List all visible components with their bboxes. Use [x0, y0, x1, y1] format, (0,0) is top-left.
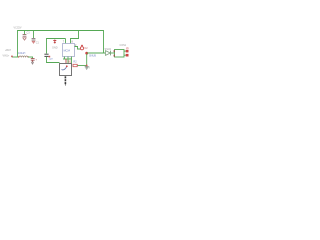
svg-text:R2: R2 [74, 60, 78, 63]
junction node VOUT red dot [85, 52, 88, 55]
IC U1 top pin 8 wire [71, 31, 79, 44]
svg-text:D2: D2 [85, 47, 89, 50]
connector pin pads [126, 50, 129, 53]
svg-text:C1: C1 [36, 42, 40, 45]
dashed lead below box [65, 76, 67, 78]
svg-text:MC34: MC34 [64, 49, 71, 52]
svg-text:J1: J1 [126, 46, 129, 50]
svg-text:SNUB: SNUB [89, 54, 96, 57]
wire x46 to bottom box [47, 57, 60, 63]
svg-text:C3: C3 [27, 32, 31, 35]
wire L1 to node [28, 56, 33, 58]
pins of L1 [18, 56, 19, 57]
svg-text:+BAT: +BAT [5, 49, 11, 52]
red port tick [11, 56, 13, 58]
svg-text:SS34: SS34 [105, 47, 112, 51]
buzzer symbol inside [62, 67, 67, 70]
op-amp U1 box [63, 44, 75, 57]
svg-text:100uH: 100uH [18, 52, 26, 55]
buzzer BZ1 box [60, 64, 72, 76]
svg-text:g: g [89, 66, 91, 69]
inductor L1 [19, 56, 28, 57]
diode D1 [106, 51, 111, 56]
svg-text:CT: CT [50, 58, 54, 61]
svg-text:VIN1+: VIN1+ [3, 54, 10, 57]
wire VOUT to diode [87, 52, 105, 54]
wire R to x86 [77, 65, 87, 67]
wire top rail [18, 31, 104, 58]
capacitor C2 (x33 upper stack) [33, 31, 35, 38]
ground at x86 [86, 65, 88, 67]
resistor R1 [73, 64, 77, 66]
wire diode to connector [111, 52, 115, 54]
ground for C2 [32, 41, 35, 43]
ground for C1 [23, 38, 26, 40]
wire node down [32, 57, 34, 59]
wire joining bottom pins [63, 58, 72, 60]
red ring symbol [80, 47, 83, 50]
IC U1 top pin 7 wire [65, 39, 67, 44]
red symbol under y38 wire [53, 40, 56, 44]
capacitor C4 (x33 lower stack) [31, 58, 35, 60]
wire x86 down [86, 54, 88, 66]
svg-text:+: + [36, 59, 38, 62]
ground for C4 [31, 61, 34, 63]
svg-text:VCC5V: VCC5V [14, 26, 22, 29]
capacitor C1 (x24, from rail) [24, 31, 26, 35]
capacitor C5 electrolytic on x46 [44, 53, 48, 55]
IC bottom pin 4 wire [67, 57, 69, 64]
red wire into box [65, 59, 67, 64]
IC right pin 2 wire [75, 47, 81, 50]
wire VIN stub [12, 56, 19, 58]
IC bottom pin 5 wire [71, 57, 73, 66]
svg-text:GND: GND [52, 46, 58, 49]
connector pins left ticks [114, 50, 115, 52]
IC bottom pin 1 wire [64, 57, 66, 60]
wire from y38 corner down x46 [47, 39, 66, 54]
connector J1 body [115, 50, 125, 58]
